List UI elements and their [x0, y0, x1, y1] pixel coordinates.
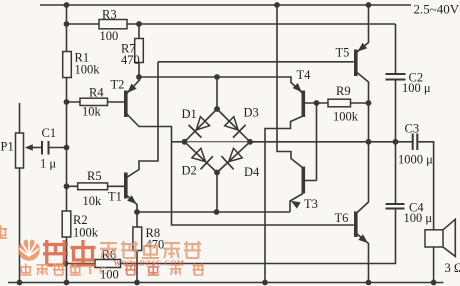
- wire speaker to rail: [433, 247, 435, 283]
- transistor T3 base bar: [301, 167, 305, 194]
- wire top supply rail: [40, 4, 411, 6]
- transistor T1 base bar: [124, 173, 128, 199]
- node rail T4 collector: [262, 280, 268, 286]
- wire C1 to left column: [49, 147, 67, 149]
- svg-text:R4: R4: [89, 86, 104, 100]
- node rail P1: [17, 280, 23, 286]
- label C1 value 1u: [40, 157, 56, 171]
- node bias line / bridge top junction: [214, 74, 220, 80]
- svg-text:D2: D2: [182, 164, 197, 178]
- wire R6 left: [66, 263, 96, 265]
- svg-text:100k: 100k: [73, 226, 99, 240]
- node bridge left vertex: [182, 139, 188, 145]
- svg-text:470: 470: [146, 238, 165, 252]
- svg-text:WWW.DZSC.COM: WWW.DZSC.COM: [114, 259, 185, 268]
- svg-text:R9: R9: [336, 84, 351, 98]
- svg-text:100 μ: 100 μ: [404, 211, 433, 225]
- svg-text:C3: C3: [405, 122, 420, 136]
- label R7: [121, 42, 136, 56]
- node rail T6 emitter: [366, 280, 372, 286]
- label R2 value 100k: [73, 226, 99, 240]
- node rail left column: [64, 280, 70, 286]
- wire T4 base to R9: [305, 102, 328, 104]
- label T2: [111, 78, 125, 92]
- wire T1 collector: [126, 62, 158, 178]
- capacitor C2 top plate: [386, 73, 406, 75]
- capacitor C4 bottom plate: [386, 208, 405, 210]
- wire T5 collector / output vertical: [356, 72, 369, 214]
- node output / T5-T6 junction: [366, 139, 372, 145]
- svg-text:100: 100: [100, 29, 119, 43]
- wire R5 row: [67, 185, 125, 187]
- label T3: [304, 197, 318, 211]
- transistor T6 base bar: [354, 212, 358, 238]
- capacitor C3 left plate: [412, 134, 414, 151]
- label P1: [1, 140, 14, 154]
- wire R9 right: [351, 102, 369, 104]
- resistor R9: [328, 99, 351, 107]
- label R9 value 100k: [333, 110, 359, 124]
- label R9: [336, 84, 351, 98]
- arrow T3 emitter (NPN): [291, 201, 301, 209]
- wire T4 collector: [265, 116, 303, 283]
- label R5: [87, 169, 102, 183]
- node R5 left junction: [64, 183, 70, 189]
- transistor T4 base bar: [301, 91, 305, 118]
- label D1: [182, 107, 197, 121]
- node bridge top vertex: [214, 106, 220, 112]
- diode D4: [221, 148, 242, 169]
- label C2 value 100u: [402, 81, 431, 95]
- wire bridge bottom stub: [216, 173, 218, 213]
- wire P1 wiper: [28, 147, 42, 149]
- svg-text:2.5~40V: 2.5~40V: [414, 2, 460, 17]
- node R7 bottom / T2 emitter junction: [136, 74, 142, 80]
- wire R3 row node line: [67, 23, 396, 25]
- svg-text:T2: T2: [111, 78, 125, 92]
- label D2: [182, 164, 197, 178]
- label speaker impedance: [445, 261, 460, 275]
- node R3 right / R7 top junction: [136, 21, 142, 27]
- resistor R1: [63, 52, 72, 78]
- capacitor C3 right plate: [416, 134, 418, 151]
- wire bottom ground rail: [8, 282, 444, 284]
- label D4: [244, 165, 260, 179]
- wire T5 base line: [158, 61, 354, 63]
- label R4 value 10k: [82, 105, 102, 119]
- capacitor C4 top plate: [386, 203, 405, 205]
- label C3: [405, 122, 420, 136]
- wire bridge upper-right edge: [217, 109, 250, 142]
- svg-text:3 Ω: 3 Ω: [445, 261, 460, 275]
- wire bridge lower-left edge: [185, 142, 218, 173]
- node rail R8: [134, 280, 140, 286]
- svg-text:D4: D4: [244, 165, 260, 179]
- label R1: [75, 51, 90, 65]
- wire bias line from R7 to T4 emitter: [139, 77, 303, 94]
- node top rail / T3 collector junction: [274, 2, 280, 8]
- svg-text:R5: R5: [87, 169, 102, 183]
- label T6: [335, 211, 349, 225]
- label C1: [42, 126, 57, 140]
- transistor T2 base bar: [124, 91, 128, 118]
- resistor R8: [133, 227, 142, 251]
- wire C2 to output node: [395, 80, 397, 205]
- node T4 base junction: [314, 100, 320, 106]
- wire T2 collector: [126, 113, 354, 225]
- svg-text:D3: D3: [244, 106, 259, 120]
- wire T6 emitter: [356, 233, 369, 283]
- label R7 value 470: [121, 53, 140, 67]
- svg-text:C1: C1: [42, 126, 57, 140]
- watermark logo and text (decorative overlay): [0, 225, 204, 277]
- wire C2 top branch: [395, 24, 397, 74]
- svg-text:100k: 100k: [333, 110, 359, 124]
- wire R8 branch: [136, 212, 138, 283]
- resistor R3: [99, 20, 127, 29]
- diode D1: [189, 117, 210, 138]
- label T5: [336, 46, 350, 60]
- wire R7 branch: [138, 24, 140, 77]
- label C4: [409, 201, 424, 215]
- wire bridge top stub: [216, 77, 218, 109]
- wire T2 emitter: [126, 77, 140, 95]
- svg-text:1000 μ: 1000 μ: [398, 153, 433, 167]
- label R6 value 100: [100, 268, 119, 282]
- label C3 value 1000u: [398, 153, 433, 167]
- node R9 right junction: [366, 100, 372, 106]
- label R3: [102, 8, 117, 22]
- wire T3 collector from top rail: [277, 5, 303, 168]
- wire C3 to speaker: [417, 142, 433, 230]
- wire emitter row: [137, 211, 290, 213]
- label R1 value 100k: [75, 63, 101, 77]
- node bridge bottom junction on row: [214, 209, 220, 215]
- capacitor C1 plate left: [41, 141, 43, 155]
- arrow P1 wiper: [25, 144, 33, 151]
- node top rail / left column junction: [64, 2, 70, 8]
- wire T3 emitter: [290, 194, 303, 213]
- resistor R7: [135, 39, 144, 63]
- wire R4 row: [67, 101, 125, 103]
- speaker body: [425, 230, 443, 247]
- label D3: [244, 106, 259, 120]
- speaker cone: [443, 219, 455, 256]
- label R2: [73, 213, 88, 227]
- wire bridge upper-left edge: [185, 109, 218, 142]
- node output / C2-C4 junction: [393, 139, 399, 145]
- svg-text:T6: T6: [335, 211, 349, 225]
- node T1 emitter junction: [134, 209, 140, 215]
- label C2: [409, 71, 424, 85]
- wire T1 emitter: [126, 195, 137, 213]
- svg-text:1 μ: 1 μ: [40, 157, 56, 171]
- svg-text:T4: T4: [297, 68, 312, 82]
- diode D3: [225, 117, 246, 138]
- svg-text:R3: R3: [102, 8, 117, 22]
- svg-text:D1: D1: [182, 107, 197, 121]
- arrow T5 emitter (PNP): [358, 43, 368, 52]
- svg-text:T1: T1: [108, 190, 122, 204]
- node C1 junction: [64, 145, 70, 151]
- svg-text:10k: 10k: [83, 194, 103, 208]
- label R8 value 470: [146, 238, 165, 252]
- label T1: [108, 190, 122, 204]
- capacitor C2 bottom plate: [386, 79, 406, 81]
- svg-text:T3: T3: [304, 197, 318, 211]
- node bridge bottom vertex: [214, 170, 220, 176]
- node bridge right vertex: [247, 139, 253, 145]
- wire output line: [250, 141, 413, 143]
- potentiometer P1 body: [16, 133, 24, 168]
- wire bridge left stub: [172, 141, 185, 143]
- label T4: [297, 68, 312, 82]
- svg-text:I C: I C: [88, 265, 109, 277]
- wire bridge lower-right edge: [217, 142, 250, 173]
- node R4 left junction: [64, 99, 70, 105]
- wire left column vertical: [66, 5, 68, 283]
- arrow T6 emitter (NPN): [358, 234, 368, 243]
- resistor R4: [80, 98, 108, 105]
- svg-text:P1: P1: [1, 140, 14, 154]
- svg-text:T5: T5: [336, 46, 350, 60]
- node R3 left junction: [64, 21, 70, 27]
- resistor R6: [95, 260, 121, 268]
- wire T5 emitter to rail: [356, 5, 369, 53]
- label supply voltage: [414, 2, 460, 17]
- wire P1 vertical: [19, 103, 21, 283]
- wire C4 to R6 row: [121, 209, 396, 264]
- svg-text:10k: 10k: [82, 105, 102, 119]
- transistor T5 base bar: [354, 50, 358, 77]
- svg-text:100k: 100k: [75, 63, 101, 77]
- label R3 value 100: [100, 29, 119, 43]
- resistor R5: [78, 183, 108, 190]
- wire T4-T3 base link: [316, 103, 318, 181]
- label R4: [89, 86, 104, 100]
- label R8: [146, 226, 161, 240]
- resistor R2: [62, 211, 71, 237]
- svg-text:100 μ: 100 μ: [402, 81, 431, 95]
- diode D2: [192, 148, 213, 169]
- node rail speaker: [431, 280, 437, 286]
- arrow T4 emitter (PNP): [293, 83, 302, 92]
- capacitor C1 plate right: [48, 141, 50, 155]
- svg-text:470: 470: [121, 53, 140, 67]
- label C4 value 100u: [404, 211, 433, 225]
- label R5 value 10k: [83, 194, 103, 208]
- node R6 row left junction: [63, 261, 69, 267]
- arrow T2 emitter (PNP): [127, 84, 136, 93]
- label R6: [102, 248, 117, 262]
- wire T3 base: [305, 180, 317, 182]
- wire bridge interior line: [185, 141, 251, 143]
- node top rail / T5 emitter junction: [366, 2, 372, 8]
- arrow T1 emitter (NPN): [127, 195, 137, 204]
